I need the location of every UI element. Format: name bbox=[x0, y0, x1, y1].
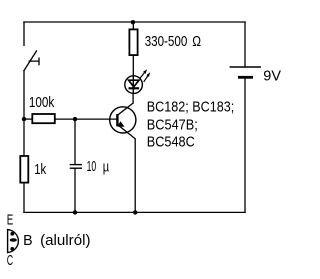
junction bottom rail / capacitor bbox=[73, 210, 77, 214]
wire left rail middle (switch to 1k) bbox=[23, 71, 25, 156]
wire left rail lower (1k to bottom rail) bbox=[23, 183, 25, 212]
battery 9V long plate bbox=[230, 66, 261, 68]
svg-text:BC182; BC183;: BC182; BC183; bbox=[147, 98, 234, 115]
capacitor 10u top plate bbox=[70, 164, 82, 166]
wire top rail bbox=[24, 21, 245, 23]
wire capacitor top branch bbox=[74, 119, 76, 164]
transistor package outline (bottom view) bbox=[8, 230, 19, 253]
svg-text:330-500: 330-500 bbox=[145, 33, 188, 50]
junction base / capacitor bbox=[73, 117, 77, 121]
resistor 1k body bbox=[20, 156, 28, 183]
wire right rail upper (top rail to battery) bbox=[244, 22, 246, 67]
resistor 330-500 body bbox=[129, 29, 137, 55]
svg-text:10: 10 bbox=[87, 158, 97, 175]
svg-text:BC548C: BC548C bbox=[147, 133, 195, 150]
capacitor 10u bottom plate bbox=[70, 167, 82, 169]
wire emitter vertical bbox=[134, 139, 136, 213]
svg-text:E: E bbox=[7, 212, 14, 229]
wire base: 100k to transistor bbox=[55, 118, 116, 120]
wire capacitor bottom branch bbox=[74, 169, 76, 213]
svg-text:100k: 100k bbox=[29, 94, 55, 111]
switch S1 actuator bar bbox=[29, 58, 39, 64]
junction left rail / 100k bbox=[22, 117, 26, 121]
resistor 100k body bbox=[32, 114, 55, 123]
wire LED cathode to collector bend bbox=[132, 93, 134, 103]
wire bottom rail bbox=[24, 211, 245, 213]
battery 9V short thick plate bbox=[238, 76, 253, 79]
LED D1 bbox=[125, 69, 150, 93]
svg-text:µ: µ bbox=[103, 159, 110, 176]
pin C dot bbox=[10, 247, 14, 251]
svg-text:Ω: Ω bbox=[192, 33, 201, 50]
wire top junction to R 330-500 bbox=[132, 22, 134, 29]
junction top rail / R330 bbox=[131, 20, 135, 24]
svg-text:B: B bbox=[23, 232, 32, 249]
svg-text:9V: 9V bbox=[263, 68, 281, 85]
wire left rail to 100k bbox=[24, 118, 32, 120]
wire R 330-500 to LED anode bbox=[132, 55, 134, 76]
wire right rail lower (battery to bottom rail) bbox=[244, 78, 246, 212]
svg-text:1k: 1k bbox=[34, 161, 46, 178]
junction bottom rail / emitter bbox=[133, 210, 137, 214]
svg-text:BC547B;: BC547B; bbox=[147, 117, 198, 134]
pin B dot bbox=[10, 238, 17, 242]
wire left rail upper (to switch contact) bbox=[23, 22, 25, 45]
svg-text:C: C bbox=[7, 252, 13, 269]
svg-text:(alulról): (alulról) bbox=[40, 232, 90, 249]
transistor Q1 bbox=[110, 103, 136, 139]
pin E dot bbox=[10, 232, 14, 236]
switch S1 lever bbox=[24, 51, 37, 71]
